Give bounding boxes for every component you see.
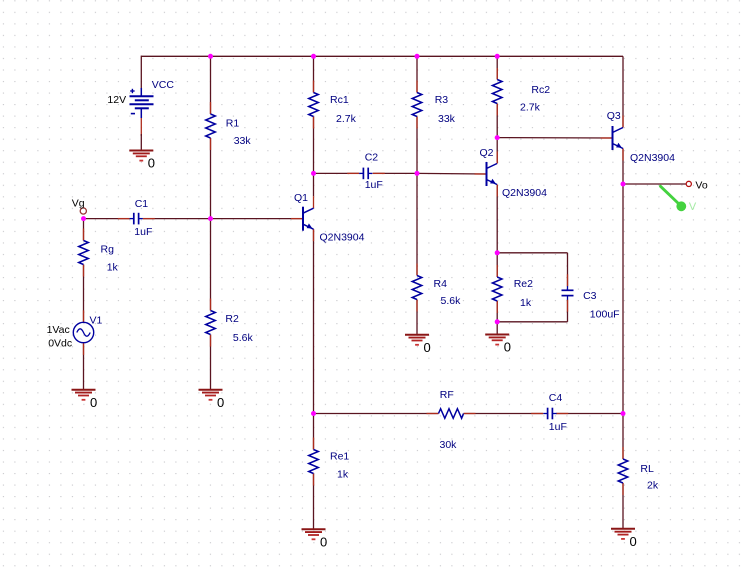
resistor Rc2 <box>492 80 502 104</box>
junction R1/rail <box>208 54 213 59</box>
junction Rc1/C2 <box>311 171 316 176</box>
svg-text:2.7k: 2.7k <box>520 102 541 114</box>
svg-text:C4: C4 <box>549 392 563 404</box>
wire Rg to V1 <box>83 265 85 323</box>
svg-text:1k: 1k <box>520 297 532 309</box>
svg-text:0: 0 <box>504 340 511 355</box>
capacitor C4 <box>543 408 556 420</box>
wire R3 column upper <box>416 56 418 92</box>
resistor RL <box>618 459 628 483</box>
svg-text:Rc1: Rc1 <box>330 94 349 106</box>
resistor R3 <box>412 93 422 117</box>
dc source VCC V battery <box>130 88 154 150</box>
junction base <box>208 216 213 221</box>
svg-text:C2: C2 <box>365 152 379 164</box>
wire RF to C4 <box>464 413 544 415</box>
wire Re2 node to Re2 <box>496 253 498 277</box>
wire base node to Q1 base <box>211 218 304 220</box>
wire Rc1 column upper <box>313 56 315 92</box>
wire Re2 to bottom node <box>496 301 498 322</box>
svg-text:R2: R2 <box>225 313 239 325</box>
svg-text:5.6k: 5.6k <box>441 295 462 307</box>
svg-text:Vg: Vg <box>72 198 85 210</box>
wire R4 to ground <box>416 300 418 335</box>
svg-text:Q2N3904: Q2N3904 <box>630 152 675 164</box>
wire Re2 bottom node to ground <box>496 322 498 335</box>
wire Q3 emitter to Vo node <box>622 149 624 185</box>
junction Vg <box>81 216 86 221</box>
transistor Q3 <box>613 126 624 150</box>
svg-text:RL: RL <box>640 463 654 475</box>
capacitor C2 <box>359 168 372 180</box>
wire Rc1 to C2 node <box>313 117 315 174</box>
voltage probe marker V at Vo <box>661 186 697 213</box>
wire battery top lead <box>140 56 142 89</box>
ground 0 under V1 <box>72 390 98 410</box>
svg-text:Vo: Vo <box>695 180 707 192</box>
wire VCC top rail <box>141 55 623 57</box>
wire C3 bottom lead <box>567 300 569 322</box>
wire RL to ground <box>622 483 624 529</box>
wire C2 node down to R4 <box>416 173 418 275</box>
wire Q2 collector lead <box>496 138 498 164</box>
svg-text:12V: 12V <box>107 94 126 106</box>
junction R3/rail <box>415 54 420 59</box>
wire C2 right lead to R3 node <box>373 172 417 174</box>
junction Rc2/rail <box>495 54 500 59</box>
junction Vo <box>621 182 626 187</box>
wire Vg column to Rg <box>83 219 85 241</box>
junction feedback left <box>311 411 316 416</box>
wire R3 to C2 node <box>416 117 418 174</box>
ground 0 under RL <box>611 529 637 549</box>
ground 0 under R4 <box>405 335 431 355</box>
wire R2 to ground <box>210 335 212 390</box>
wire C4 to right edge node <box>556 413 623 415</box>
wire right node to RL <box>622 414 624 460</box>
svg-text:Re2: Re2 <box>514 278 533 290</box>
svg-text:0: 0 <box>217 395 224 410</box>
svg-text:VCC: VCC <box>152 79 175 91</box>
node Vg open pin circle <box>80 208 86 214</box>
svg-text:V1: V1 <box>90 315 103 327</box>
resistor R1 <box>206 114 216 138</box>
resistor Rc1 <box>309 93 319 117</box>
svg-text:Q1: Q1 <box>294 192 308 204</box>
junction Re2 bottom <box>495 319 500 324</box>
svg-text:C1: C1 <box>135 198 149 210</box>
svg-text:1uF: 1uF <box>549 421 567 433</box>
svg-text:0: 0 <box>90 395 97 410</box>
ground 0 under Re1 <box>302 529 328 549</box>
svg-text:RF: RF <box>440 389 454 401</box>
resistor Re2 <box>492 277 502 301</box>
ground 0 under R2 <box>199 390 225 410</box>
svg-text:R3: R3 <box>435 94 449 106</box>
svg-text:1Vac: 1Vac <box>47 324 70 336</box>
wire C2 node to Q1 collector <box>313 173 315 196</box>
svg-text:R1: R1 <box>226 117 240 129</box>
ground 0 under VCC battery <box>129 151 155 171</box>
wire R3 node to Q2 base <box>417 172 487 175</box>
svg-text:Rc2: Rc2 <box>531 84 550 96</box>
wire Vo node to output pin <box>623 183 686 185</box>
svg-text:33k: 33k <box>234 135 252 147</box>
svg-text:R4: R4 <box>434 278 448 290</box>
svg-text:0: 0 <box>320 534 327 549</box>
wire Rc2 to Q2 collector node <box>496 104 498 138</box>
svg-text:2k: 2k <box>647 480 659 492</box>
wire C3 bottom to Re2 bottom node <box>497 321 567 323</box>
svg-text:Q3: Q3 <box>607 110 621 122</box>
resistor Rg <box>79 241 89 265</box>
svg-text:Q2: Q2 <box>480 147 494 159</box>
svg-text:30k: 30k <box>440 439 458 451</box>
svg-text:0: 0 <box>424 340 431 355</box>
capacitor C3 <box>562 286 574 300</box>
wire Re2 node to C3 top <box>497 252 567 254</box>
svg-text:1k: 1k <box>107 261 119 273</box>
resistor RF <box>439 409 464 419</box>
svg-text:0: 0 <box>148 156 155 171</box>
wire R1 column upper <box>210 56 212 114</box>
transistor Q2 <box>487 162 498 186</box>
resistor R2 <box>206 311 216 335</box>
wire Vg node to C1 <box>84 218 130 220</box>
wire base node to R2 <box>210 219 212 311</box>
svg-text:C3: C3 <box>583 290 597 302</box>
junction Q2 emitter <box>495 250 500 255</box>
svg-text:Rg: Rg <box>101 244 115 256</box>
wire C2 node to C2 left lead <box>314 172 360 174</box>
wire Vo node down right edge <box>622 184 624 414</box>
svg-text:1uF: 1uF <box>365 179 383 191</box>
wire feedback node to RF <box>314 413 439 415</box>
transistor Q1 <box>303 207 314 231</box>
svg-text:0: 0 <box>630 534 637 549</box>
svg-text:Re1: Re1 <box>330 451 349 463</box>
junction Q2 collector <box>495 135 500 140</box>
wire Rc2 column upper <box>496 56 498 79</box>
resistor R4 <box>412 276 422 300</box>
svg-text:33k: 33k <box>438 113 456 125</box>
junction C2/R3 <box>415 171 420 176</box>
wire R1 to base node <box>210 138 212 219</box>
ground 0 under Re2 <box>485 335 511 355</box>
wire C1 to base node <box>143 218 211 220</box>
svg-text:5.6k: 5.6k <box>233 332 254 344</box>
wire Q2 collector node to Q3 base <box>497 137 612 139</box>
wire Re1 to ground <box>313 474 315 530</box>
svg-text:Q2N3904: Q2N3904 <box>502 187 547 199</box>
svg-text:1uF: 1uF <box>134 226 152 238</box>
svg-text:2.7k: 2.7k <box>336 113 357 125</box>
node Vo open pin circle <box>686 181 691 186</box>
svg-text:V: V <box>689 201 697 213</box>
wire Q3 collector column <box>622 56 624 127</box>
wire C3 top lead <box>567 253 569 286</box>
resistor Re1 <box>309 450 319 474</box>
svg-text:100uF: 100uF <box>590 308 620 320</box>
wire Q1 emitter to feedback node <box>313 229 315 413</box>
wire V1 to ground <box>83 343 85 390</box>
wire feedback node to Re1 <box>313 414 315 450</box>
capacitor C1 <box>130 213 143 225</box>
svg-text:Q2N3904: Q2N3904 <box>320 231 365 243</box>
junction feedback right <box>621 411 626 416</box>
junction Rc1/rail <box>311 54 316 59</box>
svg-text:0Vdc: 0Vdc <box>48 337 72 349</box>
wire Q2 emitter to Re2 node <box>496 185 498 253</box>
ac source V1 <box>73 322 93 342</box>
svg-text:1k: 1k <box>337 469 349 481</box>
